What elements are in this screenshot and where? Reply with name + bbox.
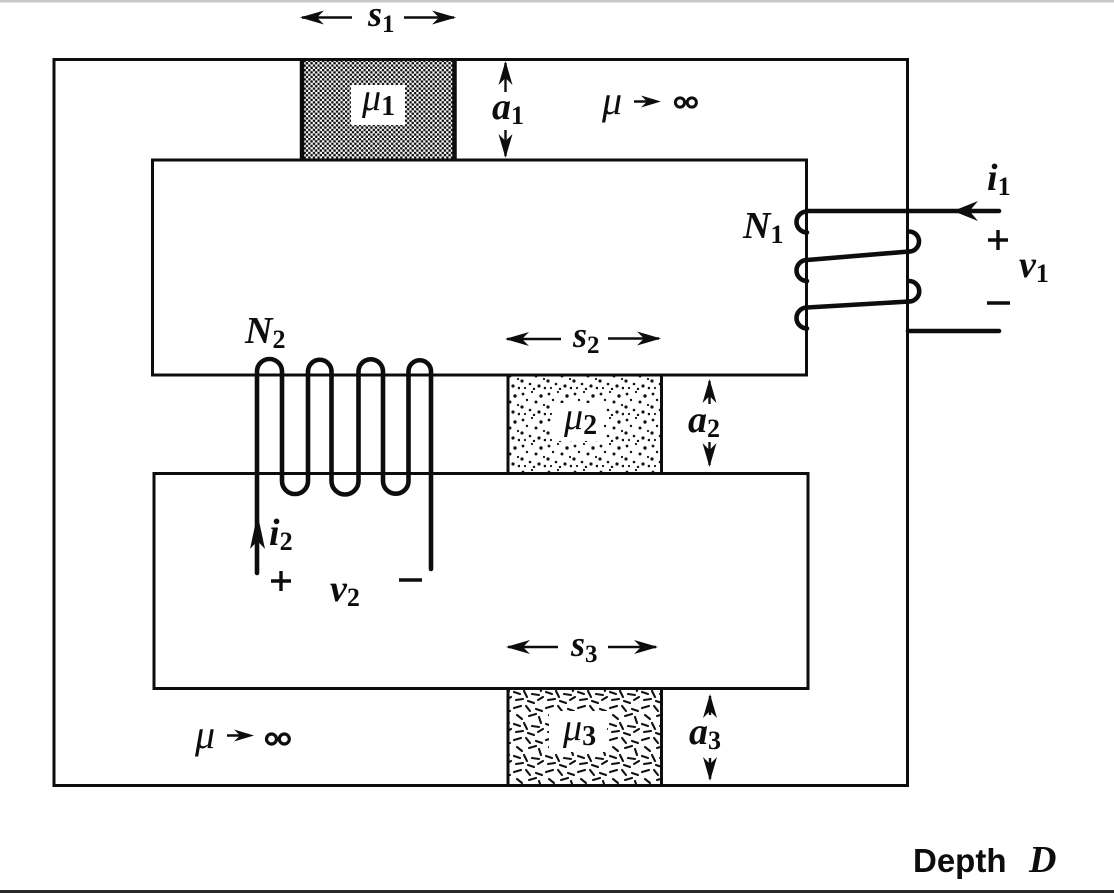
svg-text:μ: μ — [194, 712, 215, 757]
dimension a2 arrow — [703, 379, 717, 467]
svg-text:v1: v1 — [1019, 244, 1049, 288]
v1 minus sign — [987, 301, 1010, 304]
air gap mu1 left edge — [300, 60, 305, 159]
mu2 label — [552, 403, 604, 441]
svg-text:μ: μ — [601, 78, 622, 123]
svg-text:D: D — [1028, 839, 1056, 881]
dimension s1 left arrow — [300, 11, 352, 25]
N1 turn bump left 1 — [797, 212, 807, 233]
N1 wire turn 3 — [807, 302, 909, 308]
svg-text:a3: a3 — [689, 711, 721, 755]
core bar 2 — [154, 474, 808, 689]
N1 turn bump right 2 — [909, 281, 919, 302]
N1 turn bump left 3 — [797, 308, 807, 329]
svg-text:a2: a2 — [688, 399, 720, 443]
N1 turn bump right 1 — [909, 232, 919, 252]
svg-text:Depth: Depth — [913, 842, 1007, 879]
air gap mu2 fill — [508, 377, 660, 473]
dimension a3 arrow — [703, 694, 717, 781]
dimension s1 right arrow — [404, 11, 456, 25]
air gap mu2 right edge — [660, 375, 663, 474]
N1 turn bump left 2 — [797, 260, 807, 281]
scan edge bottom — [0, 890, 1114, 893]
dimension s3 right arrow — [608, 640, 658, 654]
mu1 label — [351, 85, 405, 125]
air gap mu1 fill — [302, 61, 455, 159]
N2 coil turns — [257, 359, 431, 573]
svg-text:i1: i1 — [987, 157, 1011, 201]
dimension s3 left arrow — [506, 640, 558, 654]
svg-text:s1: s1 — [367, 0, 395, 38]
wire i1 lead — [807, 209, 999, 214]
outer core outline — [54, 60, 908, 786]
v1 plus sign — [988, 230, 1008, 250]
N1 wire turn 2 — [807, 252, 909, 261]
dimension s2 right arrow — [608, 332, 661, 346]
i1 current arrowhead — [953, 201, 978, 221]
air gap mu2 left edge — [507, 375, 510, 474]
winding N2 — [257, 359, 431, 573]
scan edge top — [0, 0, 1114, 3]
i2 current arrowhead — [250, 514, 265, 549]
air gap mu3 left edge — [507, 689, 510, 786]
dimension a1 arrow — [499, 61, 513, 158]
core bar 1 — [153, 160, 807, 375]
mu3 label — [549, 711, 607, 752]
dimension s2 left arrow — [505, 332, 561, 346]
v2 plus sign — [271, 571, 291, 591]
v2 minus sign — [399, 578, 422, 581]
air gap mu1 right edge — [452, 60, 457, 159]
air gap mu3 fill — [508, 690, 660, 784]
svg-text:a1: a1 — [492, 86, 524, 130]
wire v1 bottom lead — [908, 329, 999, 334]
air gap mu3 right edge — [660, 689, 663, 786]
winding N1 — [797, 211, 999, 331]
